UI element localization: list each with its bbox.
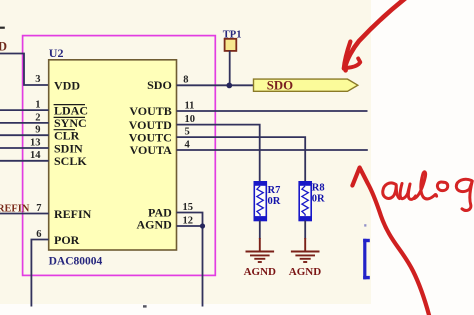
wire R7 to ground [259, 221, 261, 240]
svg-text:9: 9 [35, 125, 40, 136]
svg-text:4: 4 [185, 139, 191, 150]
ground AGND under R8 [291, 238, 320, 262]
faint mark above bracket [364, 224, 366, 226]
svg-text:2: 2 [35, 112, 40, 123]
pin 4 VOUTA wire [177, 149, 368, 151]
svg-text:TP1: TP1 [223, 29, 242, 40]
svg-text:SDO: SDO [147, 78, 172, 92]
letter g [456, 179, 472, 210]
svg-text:D: D [0, 40, 7, 54]
svg-text:7: 7 [36, 203, 41, 214]
junction pin15/12 [200, 223, 205, 228]
svg-text:13: 13 [30, 137, 41, 148]
svg-text:15: 15 [183, 202, 194, 213]
wire R8 to ground [304, 221, 306, 240]
svg-text:VDD: VDD [54, 78, 80, 92]
selection box (magenta) around U2 [23, 36, 216, 276]
svg-text:10: 10 [185, 114, 196, 125]
pin 10 VOUTD wire to R7 [177, 125, 260, 182]
svg-text:VOUTB: VOUTB [129, 104, 171, 118]
IC U2 DAC80004 body [49, 60, 177, 250]
svg-text:R8: R8 [312, 182, 325, 193]
red annotation: up-arrow with long diagonal stroke [352, 168, 429, 315]
pin 1 LDAC wire [0, 109, 49, 111]
svg-text:8: 8 [183, 75, 188, 86]
pin 14 SCLK wire [0, 160, 49, 162]
svg-text:VOUTA: VOUTA [130, 143, 173, 157]
resistor R8 [299, 181, 312, 221]
svg-text:AGND: AGND [289, 266, 321, 278]
port SDO [254, 79, 358, 91]
svg-text:1: 1 [35, 100, 40, 111]
letter a [383, 183, 400, 199]
letter n [400, 184, 415, 200]
small mark at bottom center [143, 305, 147, 307]
svg-text:5: 5 [185, 127, 190, 138]
svg-text:SDO: SDO [267, 78, 293, 92]
svg-text:AGND: AGND [244, 266, 276, 278]
pin 11 VOUTB wire [177, 110, 368, 112]
svg-text:SCLK: SCLK [54, 154, 87, 168]
letter o [437, 182, 447, 191]
pin 8 SDO wire to port [177, 84, 254, 86]
svg-text:REFIN: REFIN [54, 207, 92, 221]
red annotation: handwritten word analog [383, 172, 473, 211]
svg-text:12: 12 [183, 215, 194, 226]
resistor R7 [254, 181, 267, 221]
pin 15 PAD wire [177, 213, 203, 227]
junction TP1/SDO [226, 83, 232, 89]
svg-text:REFIN: REFIN [0, 203, 30, 214]
svg-text:POR: POR [54, 233, 80, 247]
svg-text:DAC80004: DAC80004 [49, 255, 103, 267]
svg-text:11: 11 [185, 100, 195, 111]
letter l [415, 172, 437, 199]
wire net VDD from label D to pin 3 [0, 54, 49, 86]
pin 6 POR wire going down to sheet edge [31, 240, 48, 307]
partial component bracket (right) [363, 239, 370, 279]
svg-text:3: 3 [35, 74, 40, 85]
svg-text:6: 6 [36, 229, 41, 240]
svg-text:AGND: AGND [136, 218, 172, 232]
pin 13 SDIN wire [0, 147, 49, 149]
svg-text:U2: U2 [49, 46, 64, 60]
svg-text:0R: 0R [312, 193, 325, 204]
pin 12 AGND wire joining PAD, down to sheet edge [177, 226, 203, 307]
test point TP1 [225, 39, 237, 51]
pin 7 REFIN wire [0, 213, 49, 215]
pin 5 VOUTC wire to R8 [177, 137, 306, 182]
overline fragment top-left [0, 27, 5, 29]
ground AGND under R7 [246, 238, 275, 262]
pin 2 SYNC wire [0, 122, 49, 124]
svg-text:VOUTC: VOUTC [129, 130, 172, 144]
svg-text:14: 14 [30, 150, 41, 161]
pin 9 CLR wire [0, 134, 49, 136]
wire TP1 to SDO net [229, 51, 231, 85]
svg-text:R7: R7 [268, 185, 281, 196]
svg-text:0R: 0R [268, 196, 281, 207]
red annotation: arrow pointing to SDO port [344, 0, 407, 70]
